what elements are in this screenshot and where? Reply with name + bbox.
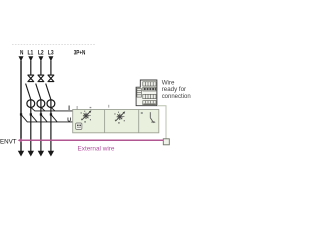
outgoing arrow N	[18, 151, 24, 157]
section 3 tick	[141, 112, 143, 113]
U voltage tap N	[21, 114, 27, 122]
I measurement tap L2	[41, 107, 45, 111]
wire N vertical	[20, 61, 22, 152]
terminal strip 2	[143, 87, 156, 91]
terminal strip side	[137, 89, 142, 98]
wire L2 lower segment	[40, 99, 42, 151]
svg-text:3P+N: 3P+N	[74, 49, 86, 56]
svg-text:N: N	[20, 49, 23, 56]
wire L1 upper segment	[30, 61, 32, 76]
incoming arrow N	[19, 56, 24, 61]
external wire arrowhead	[18, 138, 22, 142]
wire L2 upper segment	[40, 61, 42, 76]
junction dot L3	[50, 113, 52, 115]
CT circle L2	[37, 100, 45, 108]
junction dot N	[20, 113, 22, 115]
U bus wire	[27, 121, 73, 123]
junction dot L1	[30, 113, 32, 115]
meter box divider 2	[138, 110, 140, 133]
I bus wire	[35, 110, 73, 112]
outgoing arrow L3	[48, 151, 54, 157]
CT circle L3	[47, 100, 55, 108]
wire L3 lower segment	[50, 99, 52, 151]
switch blade L2	[36, 84, 41, 99]
svg-text:L3: L3	[48, 49, 54, 56]
connector wire to external box	[157, 106, 166, 139]
switch blade L3	[46, 84, 51, 99]
svg-text:L2: L2	[38, 49, 44, 56]
outgoing arrow L2	[38, 151, 44, 157]
CT circle L1	[27, 100, 35, 108]
external connection box	[163, 139, 169, 145]
terminal strip 3	[143, 94, 156, 98]
withdrawable contact L1	[28, 75, 34, 82]
svg-text:ENVT: ENVT	[0, 138, 17, 145]
I measurement tap L3	[51, 107, 55, 111]
busbar faint dashed line	[12, 44, 95, 46]
incoming arrow L3	[48, 56, 53, 61]
incoming arrow L2	[38, 56, 43, 61]
switch blade L1	[26, 84, 31, 99]
metering symbol section 2	[115, 113, 124, 122]
meter box divider 1	[104, 110, 106, 133]
metering symbol section 1	[82, 112, 91, 121]
svg-text:External wire: External wire	[78, 146, 115, 153]
section 1 arrow speck	[90, 107, 92, 108]
incoming arrow L1	[28, 56, 33, 61]
terminal block outline	[136, 80, 157, 106]
section 1 tick	[76, 106, 78, 110]
U voltage tap L2	[41, 114, 47, 122]
svg-text:L1: L1	[28, 49, 34, 56]
meter unit box	[73, 110, 159, 133]
U voltage tap L3	[51, 114, 57, 122]
withdrawable contact L2	[38, 75, 44, 82]
external wire line	[19, 139, 163, 141]
relay contact symbol section 3	[150, 112, 154, 122]
terminal strip 1	[143, 82, 156, 86]
I measurement tap L1	[31, 107, 35, 111]
junction dot L2	[40, 113, 42, 115]
U voltage tap L1	[31, 114, 37, 122]
outgoing arrow L1	[28, 151, 34, 157]
svg-text:U: U	[67, 117, 71, 123]
wire L1 lower segment	[30, 99, 32, 151]
withdrawable contact L3	[48, 75, 54, 82]
wire L3 upper segment	[50, 61, 52, 76]
terminal strip 4	[143, 101, 156, 105]
auxiliary icon section 1	[76, 123, 82, 129]
section 2 tick	[108, 105, 110, 108]
svg-text:connection: connection	[162, 93, 192, 100]
